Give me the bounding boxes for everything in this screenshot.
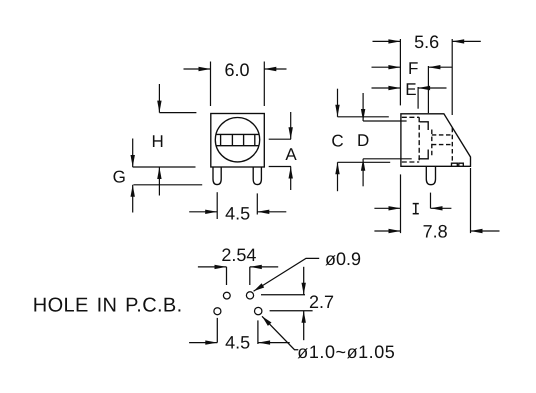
dim I shaft right: [431, 207, 452, 209]
arrowhead leader 0.9: [254, 283, 265, 291]
arrowhead 2.54 right: [250, 265, 262, 269]
side view: chip hidden lower (dashed): [432, 144, 453, 146]
dim G top arrow shaft: [132, 139, 134, 168]
dim 4.5 pcb extension right: [257, 320, 259, 344]
dim A top line (lens axis): [269, 138, 291, 140]
side view: foot notch 1: [452, 163, 458, 166]
arrowhead A top: [289, 127, 293, 139]
arrowhead 7.8 left: [389, 229, 401, 233]
svg-text:G: G: [113, 167, 126, 186]
dim 5.6 shaft right: [452, 40, 481, 42]
side view: lens step bottom: [418, 150, 428, 159]
dim 7.8 shaft right: [471, 230, 500, 232]
dim C top line: [338, 116, 389, 118]
svg-text:7.8: 7.8: [423, 222, 448, 242]
dim 2.54 extension right: [249, 267, 251, 285]
svg-text:ø1.0~ø1.05: ø1.0~ø1.05: [297, 342, 395, 362]
dim 7.8 shaft left: [374, 230, 400, 232]
dim 7.8 extension right: [470, 168, 472, 233]
arrowhead D bottom: [361, 159, 365, 171]
svg-text:4.5: 4.5: [225, 203, 250, 223]
dim E extension right: [417, 87, 419, 109]
arrowhead D top: [361, 109, 365, 121]
dim I extension left: [400, 174, 402, 233]
dim H bottom arrow shaft: [158, 167, 160, 196]
front view: reflector band top line: [216, 133, 259, 135]
svg-text:ø0.9: ø0.9: [325, 249, 361, 269]
leader line for hole 1.0: [262, 316, 298, 349]
front view: band divider 4: [254, 134, 256, 145]
dim D top arrow shaft: [362, 93, 364, 121]
arrowhead 4.5 front left: [205, 210, 217, 214]
side view: chip hidden right (dashed): [451, 128, 453, 162]
arrowhead leader 1.0: [262, 316, 272, 326]
svg-text:2.7: 2.7: [309, 292, 334, 312]
side view: bore hidden top (dashed): [402, 116, 419, 118]
dim 2.54 shaft right: [250, 266, 278, 268]
dim I shaft left: [374, 207, 400, 209]
arrowhead E right: [418, 86, 430, 90]
front view: right pin: [253, 167, 261, 185]
side view: bore hidden right (dashed): [418, 117, 420, 162]
dim G bottom line (pin tip level): [133, 184, 202, 186]
arrowhead H top: [157, 101, 161, 113]
dim F shaft right: [428, 66, 452, 68]
arrowhead F right: [428, 65, 440, 69]
dim 4.5 front extension left: [216, 192, 218, 219]
arrowhead 6.0 right: [264, 67, 276, 71]
arrowhead C bottom: [335, 162, 339, 174]
dim 5.6 extension right: [451, 39, 453, 115]
dim 5.6 extension left: [399, 39, 401, 105]
dim E shaft right: [418, 87, 446, 89]
dim 4.5 pcb shaft left: [189, 342, 217, 344]
svg-text:HOLE IN P.C.B.: HOLE IN P.C.B.: [33, 295, 183, 317]
dim 2.7 top arrow shaft: [303, 267, 305, 295]
dim H top line: [159, 112, 196, 114]
front view: LED holder body square: [211, 114, 264, 168]
dim 6.0 shaft left: [184, 68, 211, 70]
arrowhead 2.7 top: [302, 283, 306, 295]
arrowhead 7.8 right: [471, 229, 483, 233]
dim A bottom arrow shaft: [290, 167, 292, 191]
arrowhead G bottom: [131, 185, 135, 197]
dim D bottom arrow shaft: [362, 159, 364, 187]
front view: band divider 2: [231, 134, 233, 145]
svg-text:2.54: 2.54: [221, 245, 256, 265]
dim 4.5 front shaft right: [257, 211, 286, 213]
arrowhead 2.54 left: [215, 265, 227, 269]
label I (seriffed): [413, 204, 419, 214]
side view: chip hidden left (dashed): [431, 130, 433, 156]
dim 4.5 pcb shaft right: [258, 342, 290, 344]
dim C top arrow shaft: [337, 89, 339, 117]
side view: lens step top: [420, 122, 429, 130]
front view: band divider 1: [220, 134, 222, 145]
dim 4.5 front extension right: [256, 193, 258, 214]
dim 6.0 shaft right: [264, 68, 286, 70]
leader line for hole 0.9: [254, 258, 320, 291]
dim D top line: [363, 120, 407, 122]
pcb hole bottom-left: [214, 308, 221, 315]
side view: bore hidden bottom (dashed): [402, 161, 419, 163]
svg-text:6.0: 6.0: [224, 60, 249, 80]
arrowhead A bottom: [289, 167, 293, 179]
arrowhead I left: [389, 206, 401, 210]
svg-text:F: F: [408, 59, 418, 78]
front view: band divider 3: [243, 134, 245, 145]
svg-text:A: A: [285, 145, 297, 164]
arrowhead 4.5 pcb right: [258, 340, 270, 344]
dim 6.0 extension right: [263, 62, 265, 107]
side view: body outline: [401, 114, 471, 167]
dim 4.5 front shaft left: [189, 211, 217, 213]
pcb hole bottom-right: [255, 307, 262, 314]
front view: left pin: [213, 167, 221, 185]
arrowhead 6.0 left: [199, 67, 211, 71]
dim 2.7 top line: [261, 294, 305, 296]
front view: reflector band bottom line: [216, 145, 259, 147]
pcb hole top-left: [223, 292, 230, 299]
svg-text:D: D: [357, 131, 369, 150]
dim H top arrow shaft: [158, 84, 160, 113]
arrowhead C top: [335, 105, 339, 117]
arrowhead H bottom: [157, 167, 161, 179]
arrowhead F left: [388, 65, 400, 69]
dim 6.0 extension left: [210, 62, 212, 107]
svg-text:5.6: 5.6: [414, 32, 439, 52]
dim 5.6 shaft left: [373, 40, 401, 42]
arrowhead 4.5 front right: [257, 210, 269, 214]
dim F extension right: [427, 66, 429, 113]
arrowhead 5.6 right: [452, 39, 464, 43]
dim G bottom arrow shaft: [132, 185, 134, 213]
svg-text:H: H: [152, 132, 164, 151]
dim 2.54 extension left: [226, 267, 228, 285]
dim C bottom line: [338, 161, 391, 163]
dim F shaft left: [372, 66, 401, 68]
svg-text:E: E: [405, 80, 416, 99]
dim A bottom line: [269, 166, 291, 168]
side view: pin: [426, 166, 435, 184]
arrowhead E left: [388, 86, 400, 90]
arrowhead 4.5 pcb left: [205, 340, 217, 344]
svg-text:4.5: 4.5: [225, 333, 250, 353]
dim 2.7 bottom arrow shaft: [303, 311, 305, 341]
dim G top line (square bottom level): [133, 166, 196, 168]
svg-text:C: C: [331, 131, 343, 150]
dim C bottom arrow shaft: [337, 162, 339, 191]
front view: LED lens circle: [215, 118, 259, 162]
arrowhead I right: [431, 206, 443, 210]
arrowhead 5.6 left: [388, 39, 400, 43]
dim 4.5 pcb extension left: [216, 318, 218, 343]
pcb hole top-right: [246, 292, 253, 299]
dim 2.7 bottom line: [270, 310, 313, 312]
dim I extension right: [430, 193, 432, 209]
side view: chip hidden upper (dashed): [432, 134, 453, 136]
dim 2.54 shaft left: [198, 266, 227, 268]
arrowhead G top: [131, 155, 135, 167]
dim E shaft left: [372, 87, 401, 89]
dim A top arrow shaft: [290, 112, 292, 139]
dim D bottom line: [363, 158, 412, 160]
arrowhead 2.7 bottom: [302, 311, 306, 323]
side view: foot notch 2: [459, 163, 464, 166]
